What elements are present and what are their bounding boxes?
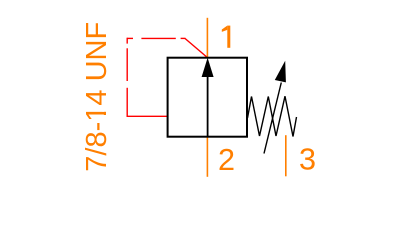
pilot line left vertical dashes [126,38,128,117]
pilot line bottom horizontal [127,115,168,117]
valve body box [168,58,247,137]
pilot line diagonal [185,38,208,57]
port 2 line [206,137,208,177]
flow arrow shaft [207,76,209,137]
svg-text:7/8-14 UNF: 7/8-14 UNF [81,22,113,172]
svg-text:3: 3 [299,142,316,176]
port 1 line [206,18,208,58]
spring [248,96,297,136]
pilot line top horizontal dashes [127,37,185,39]
adjustment arrow shaft [264,83,281,154]
svg-text:2: 2 [218,143,235,177]
port 1 label [222,26,231,48]
adjustment arrow head [275,61,286,83]
flow arrow head [202,58,214,77]
port 3 line [285,135,287,176]
